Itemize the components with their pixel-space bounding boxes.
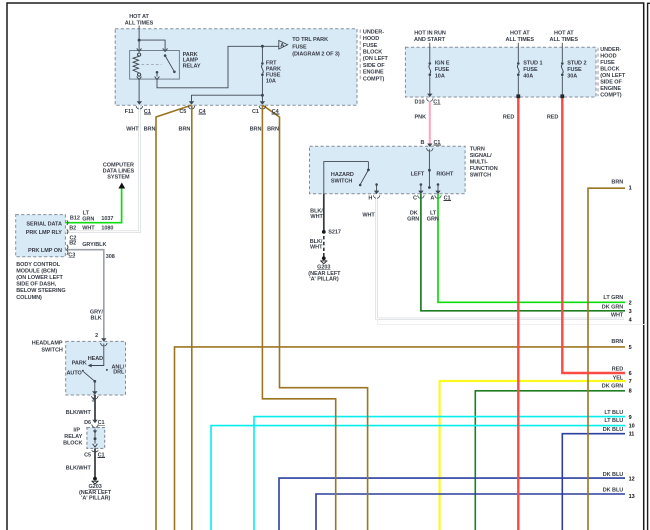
node turn feed lower bbox=[428, 186, 431, 189]
wire YEL row 7 to bottom bbox=[440, 381, 625, 530]
svg-text:(ON LEFT: (ON LEFT bbox=[600, 73, 626, 79]
splice S217 bbox=[322, 230, 326, 234]
wire RED stud2 fuse to row 6 bbox=[562, 97, 625, 373]
svg-text:PARK: PARK bbox=[72, 361, 87, 367]
svg-text:LT GRN: LT GRN bbox=[603, 295, 623, 301]
svg-text:PRK LMP RLY: PRK LMP RLY bbox=[26, 230, 63, 236]
wire BRN C5 left leg to bottom edge bbox=[156, 105, 191, 530]
svg-text:PRK LMP ON: PRK LMP ON bbox=[28, 248, 62, 254]
svg-text:SWITCH: SWITCH bbox=[470, 172, 491, 178]
svg-text:DK BLU: DK BLU bbox=[603, 427, 624, 433]
svg-text:BRN: BRN bbox=[250, 126, 262, 132]
svg-text:RED: RED bbox=[547, 114, 559, 120]
svg-text:F11: F11 bbox=[125, 109, 134, 115]
fuse STUD 2 30A bbox=[561, 47, 563, 62]
wire DK BLU row 13 to bottom at x=316 bbox=[316, 494, 625, 530]
connector headlamp pin 2 bbox=[101, 338, 108, 346]
wire split to C5 connector bbox=[192, 95, 263, 102]
svg-text:8: 8 bbox=[629, 388, 632, 394]
svg-text:STUD 1: STUD 1 bbox=[523, 60, 542, 66]
arrowhead park position bbox=[88, 364, 92, 368]
connector B/C1 into turn signal switch bbox=[427, 144, 434, 152]
wire to TRL PARK triangle bbox=[262, 45, 278, 47]
svg-text:COMPT): COMPT) bbox=[363, 76, 385, 82]
connector C bbox=[418, 191, 425, 199]
turn signal A contact bbox=[437, 183, 440, 186]
svg-text:GRN: GRN bbox=[82, 216, 94, 222]
svg-text:AUTO: AUTO bbox=[67, 371, 83, 377]
label bracket box2 bbox=[597, 48, 599, 97]
svg-text:C5: C5 bbox=[179, 109, 186, 115]
svg-text:LT BLU: LT BLU bbox=[604, 418, 623, 424]
svg-text:UNDER-: UNDER- bbox=[600, 47, 621, 53]
node drl contact bbox=[106, 369, 108, 371]
svg-text:13: 13 bbox=[629, 494, 635, 500]
svg-text:FUSE: FUSE bbox=[435, 67, 450, 73]
relay K box bbox=[130, 51, 180, 80]
svg-text:GRY/BLK: GRY/BLK bbox=[82, 242, 106, 248]
wire DK GRN turn signal C to row 3 bbox=[421, 194, 625, 311]
turn signal / multifunction switch dashed box bbox=[310, 146, 466, 193]
ground G203 (near headlamp) bbox=[93, 477, 97, 481]
svg-text:GRN: GRN bbox=[407, 217, 419, 223]
svg-text:HOT IN RUN: HOT IN RUN bbox=[414, 30, 446, 36]
svg-text:HOT AT: HOT AT bbox=[510, 30, 530, 36]
wire BRN C5 straight leg to bottom edge bbox=[191, 105, 193, 530]
svg-text:HEADLAMP: HEADLAMP bbox=[32, 341, 63, 347]
svg-text:BRN: BRN bbox=[267, 126, 279, 132]
svg-text:7: 7 bbox=[629, 379, 632, 385]
svg-text:BLK: BLK bbox=[91, 316, 102, 322]
svg-text:DK GRN: DK GRN bbox=[602, 304, 623, 310]
node turn feed upper bbox=[428, 169, 431, 172]
connector headlamp pin 3 bbox=[92, 391, 99, 399]
wire WHT faint echo below row 4 bbox=[378, 320, 646, 325]
svg-text:DK: DK bbox=[410, 211, 418, 217]
svg-text:A: A bbox=[280, 43, 284, 49]
svg-text:SIDE OF: SIDE OF bbox=[363, 63, 385, 69]
relay mechanical dashed link bbox=[142, 63, 162, 65]
wire PNK ign fuse to turn signal B bbox=[429, 102, 431, 147]
svg-text:COMPT): COMPT) bbox=[600, 93, 622, 99]
svg-text:RELAY: RELAY bbox=[183, 63, 201, 69]
ground G203 (near hazard) bbox=[322, 256, 326, 260]
svg-text:FUSE: FUSE bbox=[567, 67, 582, 73]
svg-text:3: 3 bbox=[92, 397, 95, 403]
svg-text:WHT: WHT bbox=[362, 213, 375, 219]
svg-text:B2: B2 bbox=[69, 241, 76, 247]
wire DK BLU row 11 to bottom at x=562 bbox=[562, 434, 625, 530]
svg-text:308: 308 bbox=[106, 254, 115, 260]
wire LT GRN turn signal A to row 2 bbox=[438, 194, 625, 303]
svg-text:(ON LEFT: (ON LEFT bbox=[363, 56, 389, 62]
node stud1 output bbox=[516, 94, 520, 98]
svg-text:C5: C5 bbox=[84, 452, 91, 458]
svg-text:D6: D6 bbox=[84, 420, 91, 426]
svg-text:BLK/WHT: BLK/WHT bbox=[66, 466, 92, 472]
computer data lines arrow bbox=[118, 183, 125, 189]
svg-text:SIDE OF DASH,: SIDE OF DASH, bbox=[16, 282, 57, 288]
wire WHT hazard H to right edge row 4 bbox=[377, 197, 624, 319]
svg-text:H: H bbox=[368, 195, 372, 201]
svg-text:ALL TIMES: ALL TIMES bbox=[550, 37, 579, 43]
svg-text:5: 5 bbox=[629, 345, 632, 351]
svg-text:HOT AT: HOT AT bbox=[129, 14, 149, 20]
connector H bbox=[373, 191, 380, 199]
wire BRN C1 right leg then to x=367 bottom bbox=[263, 105, 368, 530]
underhood fuse block (right) dashed box bbox=[405, 47, 596, 97]
svg-text:SWITCH: SWITCH bbox=[331, 178, 352, 184]
svg-text:PARK: PARK bbox=[266, 67, 281, 73]
wire DK GRN row 8 to bottom bbox=[475, 391, 625, 530]
svg-text:SIGNAL/: SIGNAL/ bbox=[470, 153, 492, 159]
node stud2 output bbox=[560, 94, 564, 98]
svg-text:FUSE: FUSE bbox=[363, 43, 378, 49]
svg-text:I/P: I/P bbox=[73, 428, 80, 434]
wire headlamp feed bbox=[91, 344, 104, 366]
svg-text:SERIAL DATA: SERIAL DATA bbox=[26, 221, 62, 227]
fuse IGN E 10A bbox=[429, 47, 431, 62]
svg-text:WHT: WHT bbox=[310, 214, 323, 220]
svg-text:30A: 30A bbox=[567, 73, 577, 79]
wire BLK/WHT headlamp switch to I/P relay block bbox=[94, 395, 96, 422]
wire relay switch output loop to fuse junction bbox=[157, 46, 262, 88]
svg-text:WHT: WHT bbox=[310, 244, 323, 250]
svg-text:RIGHT: RIGHT bbox=[436, 172, 454, 178]
svg-text:MODULE (BCM): MODULE (BCM) bbox=[16, 269, 57, 275]
symbol triangle A bbox=[279, 41, 288, 50]
svg-text:UNDER-: UNDER- bbox=[363, 30, 384, 36]
svg-text:HOOD: HOOD bbox=[363, 36, 379, 42]
svg-text:RELAY: RELAY bbox=[64, 434, 82, 440]
relay coil terminals and winding bbox=[137, 48, 142, 51]
node fuse feed bbox=[261, 45, 264, 48]
svg-text:FUNCTION: FUNCTION bbox=[470, 166, 498, 172]
svg-text:SYSTEM: SYSTEM bbox=[107, 174, 130, 180]
svg-text:STUD 2: STUD 2 bbox=[567, 60, 586, 66]
connector D10/C1 bbox=[427, 94, 434, 102]
svg-text:DK BLU: DK BLU bbox=[603, 472, 624, 478]
svg-text:HEAD: HEAD bbox=[88, 356, 103, 362]
svg-text:'A' PILLAR): 'A' PILLAR) bbox=[81, 495, 110, 501]
svg-text:LT BLU: LT BLU bbox=[604, 410, 623, 416]
svg-text:ENGINE: ENGINE bbox=[600, 86, 621, 92]
svg-text:(ON LOWER LEFT: (ON LOWER LEFT bbox=[16, 275, 63, 281]
I/P relay block pass-through bbox=[93, 430, 97, 433]
wire WHT from F11 to BCM B2 (outline) bbox=[65, 105, 139, 232]
svg-text:FUSE: FUSE bbox=[292, 44, 307, 50]
wire LT BLU row 10 to bottom at x=211 bbox=[211, 426, 625, 530]
label bracket box1 bbox=[359, 30, 361, 81]
wire branch to relay switch bbox=[139, 40, 165, 50]
svg-text:WHT: WHT bbox=[611, 312, 624, 318]
svg-text:11: 11 bbox=[629, 432, 635, 438]
fuse FRT PARK 10A bbox=[261, 46, 263, 62]
connector C5/C1 bbox=[93, 444, 98, 447]
svg-text:RED: RED bbox=[503, 114, 515, 120]
wire BLK/WHT I/P relay block to G203 bbox=[94, 448, 96, 477]
svg-text:LEFT: LEFT bbox=[411, 172, 425, 178]
wire feed ticks into box2 bbox=[429, 43, 431, 47]
svg-text:2: 2 bbox=[95, 333, 98, 339]
svg-text:B: B bbox=[420, 140, 424, 146]
svg-text:DK BLU: DK BLU bbox=[603, 488, 624, 494]
wire relay coil to F11 bbox=[138, 80, 140, 102]
svg-text:D10: D10 bbox=[415, 99, 425, 105]
wire turn signal feed bbox=[428, 149, 430, 187]
svg-text:PNK: PNK bbox=[415, 114, 427, 120]
svg-text:BLOCK: BLOCK bbox=[600, 67, 619, 73]
svg-text:12: 12 bbox=[629, 476, 635, 482]
svg-text:6: 6 bbox=[629, 371, 632, 377]
svg-text:BELOW STEERING: BELOW STEERING bbox=[16, 288, 65, 294]
svg-text:4: 4 bbox=[629, 318, 633, 324]
svg-text:A: A bbox=[430, 195, 434, 201]
svg-text:BLOCK: BLOCK bbox=[63, 440, 82, 446]
wire fuse output to connectors bbox=[261, 76, 263, 102]
hazard H contact bbox=[375, 183, 378, 186]
svg-text:BLOCK: BLOCK bbox=[363, 50, 382, 56]
wire LT GRN 1037 BCM to computer data lines bbox=[65, 188, 121, 223]
connector C1/C4 bbox=[259, 101, 266, 109]
svg-text:GRY/: GRY/ bbox=[90, 310, 104, 316]
svg-text:FUSE: FUSE bbox=[523, 67, 538, 73]
wire hot feed into relay bbox=[138, 26, 140, 51]
svg-text:10: 10 bbox=[629, 423, 635, 429]
wire BRN row 5 to bottom at x=174.5 bbox=[175, 347, 626, 530]
svg-text:C1: C1 bbox=[252, 109, 259, 115]
svg-text:HOT AT: HOT AT bbox=[554, 30, 574, 36]
svg-text:C: C bbox=[413, 195, 417, 201]
svg-text:MULTI-: MULTI- bbox=[470, 159, 488, 165]
wire BRN C1 straight leg then to x=335 bottom bbox=[262, 105, 335, 530]
wire GRY/BLK 308 BCM to headlamp switch bbox=[65, 250, 103, 341]
svg-text:10A: 10A bbox=[435, 73, 445, 79]
node hot feed branch bbox=[138, 39, 141, 42]
node fuse output split bbox=[261, 94, 264, 97]
svg-text:BRN: BRN bbox=[144, 126, 156, 132]
svg-text:1: 1 bbox=[629, 186, 632, 192]
svg-text:BLK/WHT: BLK/WHT bbox=[66, 410, 92, 416]
svg-text:BODY CONTROL: BODY CONTROL bbox=[16, 262, 61, 268]
hazard switch arm bbox=[367, 162, 369, 170]
relay switch arm bbox=[163, 48, 168, 51]
svg-text:S217: S217 bbox=[328, 230, 341, 236]
svg-text:TURN: TURN bbox=[470, 146, 485, 152]
svg-text:HOOD: HOOD bbox=[600, 54, 616, 60]
svg-text:LT: LT bbox=[430, 211, 437, 217]
svg-text:1037: 1037 bbox=[101, 216, 113, 222]
connector A/C1 bbox=[435, 191, 442, 199]
svg-text:ALL TIMES: ALL TIMES bbox=[125, 21, 154, 27]
connector F11/C1 bbox=[136, 101, 143, 109]
underhood fuse block (left) dashed box bbox=[115, 29, 357, 105]
svg-text:SWITCH: SWITCH bbox=[41, 347, 62, 353]
svg-text:SIDE OF: SIDE OF bbox=[600, 80, 622, 86]
wire LT BLU row 9 to bottom at x=254 bbox=[254, 417, 625, 530]
fuse STUD 1 40A bbox=[517, 47, 519, 62]
svg-text:40A: 40A bbox=[523, 73, 533, 79]
svg-text:HAZARD: HAZARD bbox=[331, 172, 354, 178]
svg-text:'A' PILLAR): 'A' PILLAR) bbox=[309, 276, 338, 282]
svg-text:BRN: BRN bbox=[611, 179, 623, 185]
svg-text:IGN E: IGN E bbox=[435, 60, 450, 66]
svg-text:10A: 10A bbox=[266, 78, 276, 84]
svg-text:COLUMN): COLUMN) bbox=[16, 295, 42, 301]
node auto contact bbox=[82, 370, 84, 372]
svg-text:(DIAGRAM 2 OF 3): (DIAGRAM 2 OF 3) bbox=[292, 51, 340, 57]
svg-text:B12: B12 bbox=[70, 215, 80, 221]
headlamp switch dashed box bbox=[66, 341, 126, 395]
connector D6/C1 bbox=[92, 420, 99, 428]
svg-text:B2: B2 bbox=[69, 225, 76, 231]
connector C5/C4 bbox=[188, 101, 195, 109]
body control module dashed box bbox=[16, 215, 66, 257]
svg-text:3: 3 bbox=[629, 309, 632, 315]
svg-text:1080: 1080 bbox=[101, 225, 113, 231]
svg-text:RED: RED bbox=[612, 367, 624, 373]
wire DK BLU row 12 to bottom at x=279 bbox=[279, 478, 625, 530]
BCM pin brackets bbox=[67, 220, 68, 225]
wire hazard feed bbox=[324, 162, 369, 194]
svg-text:DRL: DRL bbox=[113, 370, 125, 376]
svg-text:9: 9 bbox=[629, 415, 632, 421]
svg-text:BRN: BRN bbox=[611, 339, 623, 345]
turn signal C contact bbox=[420, 183, 423, 186]
wire BRN row 1 right edge down page bbox=[588, 188, 625, 530]
svg-text:DK GRN: DK GRN bbox=[602, 383, 623, 389]
svg-text:TO TRL PARK: TO TRL PARK bbox=[292, 37, 328, 43]
svg-text:WHT: WHT bbox=[126, 126, 139, 132]
svg-text:AND START: AND START bbox=[414, 37, 446, 43]
svg-text:WHT: WHT bbox=[82, 225, 95, 231]
headlamp switch arm bbox=[93, 380, 96, 383]
svg-text:YEL: YEL bbox=[613, 375, 624, 381]
wire BLK/WHT hazard to S217 and ground bbox=[323, 194, 325, 232]
I/P relay block dashed box bbox=[87, 428, 105, 449]
svg-text:BRN: BRN bbox=[179, 126, 191, 132]
svg-text:ENGINE: ENGINE bbox=[363, 70, 384, 76]
svg-text:ALL TIMES: ALL TIMES bbox=[506, 37, 535, 43]
svg-text:GRN: GRN bbox=[427, 217, 439, 223]
svg-text:FUSE: FUSE bbox=[600, 60, 615, 66]
wire RED stud1 fuse down page bbox=[517, 97, 519, 530]
svg-text:2: 2 bbox=[629, 300, 632, 306]
wire headlamp out bbox=[94, 381, 96, 392]
